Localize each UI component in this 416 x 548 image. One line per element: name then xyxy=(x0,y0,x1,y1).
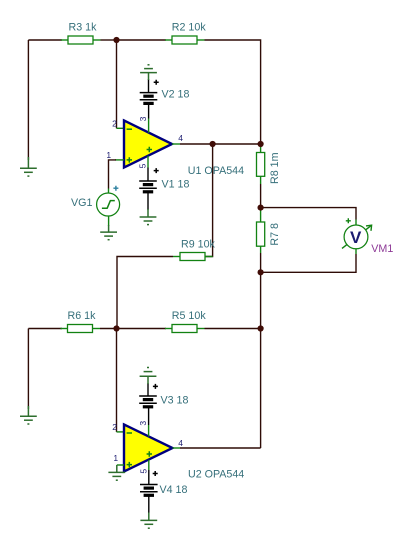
battery V4 xyxy=(140,471,187,496)
svg-text:4: 4 xyxy=(178,438,183,448)
svg-text:V1 18: V1 18 xyxy=(162,178,190,190)
wire xyxy=(28,328,62,330)
wire pin2 lead xyxy=(117,127,125,129)
wire U2 pin2 xyxy=(117,329,125,432)
svg-text:2: 2 xyxy=(112,422,117,432)
ground xyxy=(20,157,37,176)
source VG1 xyxy=(71,186,120,216)
op-amp U2 xyxy=(112,421,183,474)
wire xyxy=(101,39,117,41)
wire xyxy=(205,40,261,144)
resistor R5 xyxy=(165,310,206,333)
battery V2 xyxy=(140,80,190,104)
resistor R2 xyxy=(165,22,206,45)
svg-text:5: 5 xyxy=(138,469,148,474)
svg-text:V2 18: V2 18 xyxy=(162,88,190,100)
battery V3 xyxy=(139,384,188,407)
node mid junction xyxy=(258,205,264,211)
wire xyxy=(147,192,149,210)
svg-text:U1 OPA544: U1 OPA544 xyxy=(188,165,244,177)
ground (below V1) xyxy=(140,209,157,225)
wire U2 pin5 xyxy=(148,460,150,485)
wire xyxy=(260,329,262,449)
wire xyxy=(117,328,167,330)
ground (below V4) xyxy=(140,513,157,529)
resistor R3 xyxy=(61,22,101,45)
resistor R6 xyxy=(61,310,101,333)
svg-text:VG1: VG1 xyxy=(71,197,92,209)
wire xyxy=(147,383,149,396)
wire lower left rail xyxy=(27,329,29,410)
svg-text:V: V xyxy=(350,228,362,247)
wire xyxy=(148,79,150,93)
svg-text:R5 10k: R5 10k xyxy=(172,310,207,322)
ground (below VG1) xyxy=(100,225,117,240)
battery V1 xyxy=(139,168,189,192)
svg-text:V3 18: V3 18 xyxy=(161,394,189,406)
svg-text:R9 10k: R9 10k xyxy=(181,239,216,251)
wire pin3 xyxy=(148,103,150,132)
wire xyxy=(108,216,110,226)
svg-text:2: 2 xyxy=(112,118,117,128)
svg-text:R3 1k: R3 1k xyxy=(69,22,98,34)
wire xyxy=(116,40,118,128)
node bottom of R7 junction xyxy=(258,269,264,275)
wire VM1 top xyxy=(261,208,356,220)
wire right rail to lower xyxy=(260,272,262,328)
svg-text:4: 4 xyxy=(178,133,183,143)
wire xyxy=(205,328,261,330)
resistor R7 xyxy=(257,208,282,253)
wire xyxy=(117,257,173,329)
svg-text:R7 8: R7 8 xyxy=(269,223,281,246)
ground (below U2 pin1) xyxy=(108,465,125,480)
wire xyxy=(27,40,29,160)
svg-text:R8 1m: R8 1m xyxy=(269,152,281,184)
svg-text:R6 1k: R6 1k xyxy=(68,310,97,322)
ground (lower left) xyxy=(20,406,37,424)
wire xyxy=(260,184,262,208)
wire xyxy=(100,328,117,330)
node lower junction xyxy=(113,325,119,331)
voltmeter VM1 xyxy=(342,218,393,255)
wire U2 pin1 xyxy=(117,464,124,466)
ground (inverted, above V2) xyxy=(140,65,157,80)
wire U1 output xyxy=(172,143,261,145)
wire pin5 xyxy=(147,156,149,181)
node out1 junction xyxy=(210,141,216,147)
node A junction xyxy=(113,37,119,43)
wire pin1 xyxy=(109,160,125,189)
svg-text:1: 1 xyxy=(106,150,111,160)
svg-text:R2 10k: R2 10k xyxy=(172,22,207,34)
ground (inverted, above V3) xyxy=(140,368,157,385)
wire U2 output xyxy=(173,447,261,449)
node R5 right junction xyxy=(258,325,264,331)
svg-text:VM1: VM1 xyxy=(371,243,393,255)
svg-text:3: 3 xyxy=(138,116,148,121)
wire xyxy=(117,39,167,41)
resistor R8 xyxy=(257,144,282,184)
wire U2 pin3 xyxy=(148,407,150,437)
resistor R9 xyxy=(173,239,216,261)
op-amp U1 xyxy=(106,116,183,168)
wire xyxy=(28,39,62,41)
svg-text:3: 3 xyxy=(138,421,148,426)
svg-text:1: 1 xyxy=(113,453,118,463)
svg-text:V4 18: V4 18 xyxy=(160,484,188,496)
wire VM1 bottom xyxy=(355,249,357,254)
wire to R9 xyxy=(205,144,213,257)
wire xyxy=(260,253,262,272)
svg-text:5: 5 xyxy=(138,163,148,168)
svg-text:U2 OPA544: U2 OPA544 xyxy=(188,468,244,480)
wire xyxy=(148,495,150,513)
node right rail top junction xyxy=(258,141,264,147)
